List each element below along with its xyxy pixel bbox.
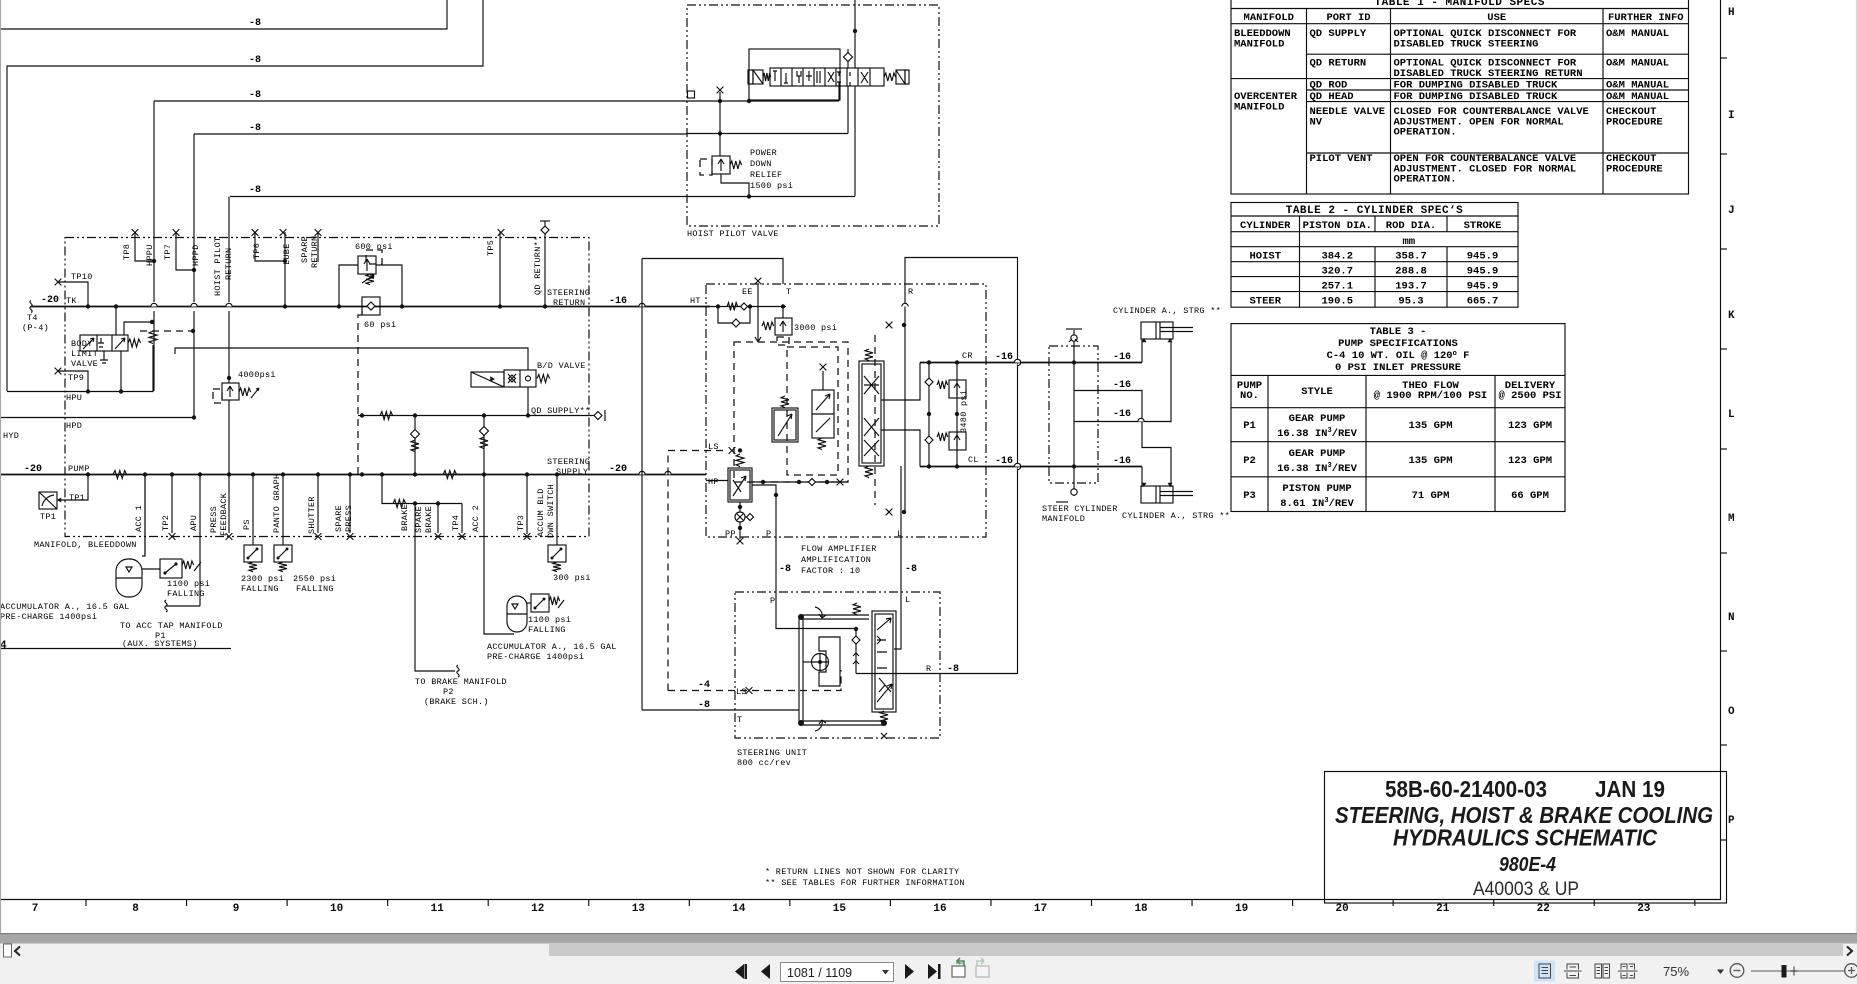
title block xyxy=(1325,772,1727,904)
wire line3 inside box xyxy=(687,100,839,102)
svg-text:PUMP: PUMP xyxy=(68,464,90,474)
svg-text:HT: HT xyxy=(690,296,701,306)
svg-text:-16: -16 xyxy=(995,456,1013,467)
svg-text:QD SUPPLY: QD SUPPLY xyxy=(1310,28,1367,40)
svg-text:22: 22 xyxy=(1537,903,1550,915)
prev page icon xyxy=(761,964,770,979)
svg-text:HOIST: HOIST xyxy=(1249,251,1281,263)
svg-text:(AUX. SYSTEMS): (AUX. SYSTEMS) xyxy=(122,639,198,649)
pressure switch PS 2300 xyxy=(244,545,262,572)
wire TP8 branch xyxy=(135,232,154,261)
svg-text:13: 13 xyxy=(632,903,646,915)
svg-text:2300 psi: 2300 psi xyxy=(241,574,284,584)
svg-text:MANIFOLD, BLEEDDOWN: MANIFOLD, BLEEDDOWN xyxy=(34,540,137,550)
svg-text:(BRAKE SCH.): (BRAKE SCH.) xyxy=(424,697,489,707)
svg-text:TP8: TP8 xyxy=(122,244,132,260)
svg-text:STEER: STEER xyxy=(1249,296,1281,308)
svg-text:TP1: TP1 xyxy=(40,512,56,522)
svg-text:RETURN: RETURN xyxy=(553,298,585,308)
right window edge xyxy=(1855,0,1857,933)
svg-text:PROCEDURE: PROCEDURE xyxy=(1606,163,1663,175)
solenoid valve bank xyxy=(748,68,909,86)
svg-text:CYLINDER A., STRG **: CYLINDER A., STRG ** xyxy=(1122,511,1230,521)
HT return line into amplifier xyxy=(706,306,786,308)
svg-text:3000 psi: 3000 psi xyxy=(794,323,837,333)
svg-text:190.5: 190.5 xyxy=(1321,296,1353,308)
svg-text:TP4: TP4 xyxy=(451,515,461,531)
svg-text:TK: TK xyxy=(66,296,77,306)
wire TP9 xyxy=(58,371,88,391)
wire line4 inside box xyxy=(687,133,848,135)
table 2 cylinder specs xyxy=(1231,203,1518,308)
svg-text:1100 psi: 1100 psi xyxy=(528,615,571,625)
pilot valve a xyxy=(772,396,798,442)
wire HPD xyxy=(0,417,193,419)
svg-text:TO ACC TAP MANIFOLD: TO ACC TAP MANIFOLD xyxy=(120,621,223,631)
svg-text:STEERING: STEERING xyxy=(547,288,590,298)
LUBE vertical xyxy=(284,232,286,306)
svg-text:2550 psi: 2550 psi xyxy=(293,574,336,584)
TP9 tap xyxy=(55,368,62,375)
svg-text:4000psi: 4000psi xyxy=(238,370,276,380)
spool bottom spring xyxy=(880,711,888,723)
svg-text:@ 1900 RPM/100 PSI: @ 1900 RPM/100 PSI xyxy=(1374,390,1487,402)
svg-text:TP10: TP10 xyxy=(71,272,93,282)
svg-text:J: J xyxy=(1728,205,1735,217)
wire -8 hoist line 1 xyxy=(0,0,447,29)
svg-text:PISTON DIA.: PISTON DIA. xyxy=(1303,220,1372,232)
svg-text:@ 2500 PSI: @ 2500 PSI xyxy=(1498,390,1561,402)
bleed fitting bottom xyxy=(1073,483,1075,496)
valve bank drop wires xyxy=(838,86,840,101)
TP5 vertical xyxy=(499,232,501,306)
svg-text:DISABLED TRUCK STEERING RETURN: DISABLED TRUCK STEERING RETURN xyxy=(1394,68,1583,80)
APU to acc tap manifold xyxy=(166,605,200,607)
toolbar background xyxy=(0,944,1857,984)
svg-text:-8: -8 xyxy=(779,564,791,575)
svg-text:EE: EE xyxy=(742,287,753,297)
svg-text:T4: T4 xyxy=(27,313,38,323)
svg-text:BODY: BODY xyxy=(71,339,93,349)
svg-text:PRE-CHARGE 1400psi: PRE-CHARGE 1400psi xyxy=(487,652,584,662)
svg-text:-20: -20 xyxy=(41,295,59,306)
svg-text:QD RETURN: QD RETURN xyxy=(1310,58,1367,70)
drawing sheet right border line xyxy=(1720,0,1722,899)
wire T trunk from tank down-left xyxy=(642,259,783,285)
spare return stub xyxy=(317,232,319,262)
svg-text:DISABLED TRUCK STEERING: DISABLED TRUCK STEERING xyxy=(1394,38,1539,50)
svg-text:QD HEAD: QD HEAD xyxy=(1310,91,1354,103)
svg-text:-8: -8 xyxy=(249,90,261,101)
wire tank vertical xyxy=(641,259,643,711)
svg-text:L: L xyxy=(897,529,902,539)
wire TP7 branch xyxy=(176,232,194,270)
svg-text:PP: PP xyxy=(725,529,736,539)
wire 600psi loop left xyxy=(339,265,358,306)
svg-text:12: 12 xyxy=(531,903,544,915)
accumulator ACC2 xyxy=(484,475,514,635)
svg-text:GEAR PUMP: GEAR PUMP xyxy=(1289,448,1346,460)
wire line5 inside box xyxy=(687,196,855,198)
svg-text:9: 9 xyxy=(233,903,240,915)
svg-text:-16: -16 xyxy=(995,352,1013,363)
svg-text:PRESS: PRESS xyxy=(344,505,354,532)
svg-text:I: I xyxy=(1728,110,1735,122)
svg-text:R: R xyxy=(908,287,913,297)
svg-text:257.1: 257.1 xyxy=(1321,281,1353,293)
zoom out button xyxy=(1730,964,1744,978)
svg-text:ROD DIA.: ROD DIA. xyxy=(1386,220,1436,232)
svg-text:M: M xyxy=(1728,513,1735,525)
svg-text:STEERING UNIT: STEERING UNIT xyxy=(737,748,807,758)
svg-text:ACCUMULATOR A., 16.5 GAL: ACCUMULATOR A., 16.5 GAL xyxy=(0,602,130,612)
wire R trunk xyxy=(905,258,1018,674)
svg-text:A40003 & UP: A40003 & UP xyxy=(1473,878,1579,900)
svg-text:FOR DUMPING DISABLED TRUCK: FOR DUMPING DISABLED TRUCK xyxy=(1394,80,1559,92)
left window edge xyxy=(0,0,2,933)
TP10 tap xyxy=(55,279,62,286)
svg-text:P: P xyxy=(770,596,775,606)
x mark on pilot branch xyxy=(719,92,721,101)
svg-text:AMPLIFICATION: AMPLIFICATION xyxy=(801,555,871,565)
svg-text:358.7: 358.7 xyxy=(1395,251,1427,263)
svg-text:O: O xyxy=(1728,706,1735,718)
svg-text:STYLE: STYLE xyxy=(1301,386,1333,398)
wire B/D pilot xyxy=(175,348,528,370)
svg-text:135 GPM: 135 GPM xyxy=(1408,455,1452,467)
inner dashed boxes xyxy=(734,342,848,482)
right ruler letters H-P xyxy=(1720,7,1735,840)
hoist pilot return vertical + 4000psi relief xyxy=(228,197,230,384)
steering cylinder A bottom xyxy=(1141,483,1193,503)
svg-text:TP1: TP1 xyxy=(69,493,85,503)
svg-text:APU: APU xyxy=(189,515,199,531)
bottom ruler numbers 7-23 xyxy=(32,899,1695,915)
svg-text:VALVE: VALVE xyxy=(71,359,98,369)
svg-text:-8: -8 xyxy=(698,700,710,711)
wire relief drain xyxy=(721,174,749,197)
T vertical + 3000psi relief xyxy=(782,307,784,319)
svg-text:-4: -4 xyxy=(698,680,710,691)
svg-text:71 GPM: 71 GPM xyxy=(1412,490,1450,502)
wire -8 line 4 HPPD to hoist pilot valve xyxy=(194,133,687,135)
hoist pilot valve dashed enclosure xyxy=(687,5,939,226)
svg-text:945.9: 945.9 xyxy=(1467,251,1499,263)
right spring + solenoid xyxy=(884,73,896,81)
svg-text:HOIST PILOT: HOIST PILOT xyxy=(213,237,223,296)
wire -8 line 3 HPPU to hoist pilot valve xyxy=(154,100,687,102)
lower-left sheet zone border line xyxy=(0,648,231,650)
svg-text:N: N xyxy=(1728,612,1735,624)
svg-text:945.9: 945.9 xyxy=(1467,266,1499,278)
svg-text:CYLINDER A., STRG **: CYLINDER A., STRG ** xyxy=(1113,306,1221,316)
svg-text:18: 18 xyxy=(1134,903,1148,915)
svg-text:P: P xyxy=(766,529,771,539)
zoom in button xyxy=(1845,964,1857,978)
wire CR -16 xyxy=(920,362,1142,364)
svg-text:DWN SWITCH: DWN SWITCH xyxy=(546,484,556,538)
svg-text:60 psi: 60 psi xyxy=(364,320,396,330)
page number combo xyxy=(781,963,894,982)
pilot valve b xyxy=(812,390,834,450)
QD supply fitting xyxy=(594,412,602,420)
svg-text:HPD: HPD xyxy=(66,421,82,431)
svg-text:PILOT VENT: PILOT VENT xyxy=(1310,153,1373,165)
svg-text:P2: P2 xyxy=(443,687,454,697)
svg-text:ACCUMULATOR A., 16.5 GAL: ACCUMULATOR A., 16.5 GAL xyxy=(487,642,617,652)
svg-text:-16: -16 xyxy=(1113,380,1131,391)
svg-text:-20: -20 xyxy=(24,464,42,475)
svg-text:0 PSI INLET PRESSURE: 0 PSI INLET PRESSURE xyxy=(1335,362,1461,374)
svg-text:1100 psi: 1100 psi xyxy=(167,579,210,589)
svg-text:-16: -16 xyxy=(1113,409,1131,420)
svg-text:PORT ID: PORT ID xyxy=(1326,12,1370,24)
svg-text:7: 7 xyxy=(32,903,39,915)
HPPU vertical xyxy=(153,101,155,391)
svg-text:SUPPLY: SUPPLY xyxy=(556,467,588,477)
svg-text:-8: -8 xyxy=(905,564,917,575)
scrollbar left arrow xyxy=(15,947,20,956)
wire TK to valve xyxy=(115,306,117,335)
svg-text:P1: P1 xyxy=(1243,420,1256,432)
counterbalance reliefs 3480psi xyxy=(928,363,930,467)
main spool valve xyxy=(859,349,884,478)
svg-text:L: L xyxy=(905,595,910,605)
wire brake header xyxy=(382,475,462,504)
svg-text:mm: mm xyxy=(1402,236,1415,248)
dashed drain from 60psi to supply xyxy=(358,311,362,474)
svg-text:FALLING: FALLING xyxy=(167,589,205,599)
svg-text:HYD: HYD xyxy=(3,431,19,441)
svg-text:95.3: 95.3 xyxy=(1398,296,1423,308)
svg-text:QD RETURN**: QD RETURN** xyxy=(533,236,543,295)
svg-text:STEER CYLINDER: STEER CYLINDER xyxy=(1042,504,1118,514)
svg-text:L: L xyxy=(1728,409,1735,421)
svg-text:16.38 IN3/REV: 16.38 IN3/REV xyxy=(1277,462,1358,475)
two page layout icon xyxy=(1595,964,1610,978)
svg-text:** SEE TABLES FOR FURTHER INFO: ** SEE TABLES FOR FURTHER INFORMATION xyxy=(765,878,965,888)
svg-text:RELIEF: RELIEF xyxy=(750,170,782,180)
svg-text:H: H xyxy=(1728,7,1735,19)
svg-text:O&M MANUAL: O&M MANUAL xyxy=(1606,58,1669,70)
svg-text:66 GPM: 66 GPM xyxy=(1511,490,1549,502)
svg-text:CYLINDER: CYLINDER xyxy=(1240,220,1291,232)
svg-text:-16: -16 xyxy=(1113,456,1131,467)
two page continuous icon xyxy=(1618,964,1638,978)
svg-text:FACTOR : 10: FACTOR : 10 xyxy=(801,566,860,576)
scrollbar left corner box xyxy=(4,944,12,957)
wire TP10 xyxy=(58,282,88,306)
svg-text:FALLING: FALLING xyxy=(528,625,566,635)
branch check+spring 1 xyxy=(414,416,416,475)
hoist pilot valve internal solid box xyxy=(749,49,840,100)
metering line xyxy=(800,628,856,630)
next page icon xyxy=(905,964,914,979)
steering pipes xyxy=(799,615,885,725)
last page icon xyxy=(928,964,937,979)
svg-text:8: 8 xyxy=(132,903,139,915)
svg-text:TP2: TP2 xyxy=(161,515,171,531)
svg-text:TABLE 1 - MANIFOLD SPECS: TABLE 1 - MANIFOLD SPECS xyxy=(1375,0,1545,9)
svg-text:16.38 IN3/REV: 16.38 IN3/REV xyxy=(1277,427,1358,440)
svg-text:14: 14 xyxy=(732,903,746,915)
wire P into pipes xyxy=(776,592,800,629)
svg-text:MANIFOLD: MANIFOLD xyxy=(1234,38,1284,50)
wire to brake manifold xyxy=(415,504,455,672)
wire -16 rod cross xyxy=(1074,391,1171,488)
svg-text:16: 16 xyxy=(933,903,946,915)
svg-text:ACC 1: ACC 1 xyxy=(134,505,144,532)
spring top xyxy=(853,603,861,615)
gray separator bar xyxy=(0,933,1857,944)
svg-text:LS: LS xyxy=(708,442,719,452)
svg-text:R: R xyxy=(926,664,931,674)
svg-text:FURTHER INFO: FURTHER INFO xyxy=(1608,12,1684,24)
svg-text:C-4 10 WT. OIL @ 120o F: C-4 10 WT. OIL @ 120o F xyxy=(1327,350,1470,362)
svg-text:600 psi: 600 psi xyxy=(355,242,393,252)
svg-text:TABLE 2 - CYLINDER SPEC‘S: TABLE 2 - CYLINDER SPEC‘S xyxy=(1286,205,1464,217)
HPPD vertical xyxy=(193,134,195,417)
svg-text:-8: -8 xyxy=(249,123,261,134)
svg-text:HP: HP xyxy=(708,477,719,487)
wire TP6 branch xyxy=(255,232,285,261)
svg-text:288.8: 288.8 xyxy=(1395,266,1427,278)
svg-text:P3: P3 xyxy=(1243,490,1256,502)
svg-text:FALLING: FALLING xyxy=(241,584,279,594)
svg-text:O&M MANUAL: O&M MANUAL xyxy=(1606,91,1669,103)
svg-text:MANIFOLD: MANIFOLD xyxy=(1244,12,1294,24)
svg-text:TP7: TP7 xyxy=(163,244,173,260)
svg-text:HOIST PILOT VALVE: HOIST PILOT VALVE xyxy=(687,229,779,239)
spool pilot dashed xyxy=(874,335,876,505)
flow amplifier dashed enclosure xyxy=(706,284,986,537)
wire TK steering return -16 bus xyxy=(31,306,710,308)
svg-text:TP3: TP3 xyxy=(516,515,526,531)
svg-text:21: 21 xyxy=(1436,903,1450,915)
wire QD supply xyxy=(358,415,592,417)
svg-text:665.7: 665.7 xyxy=(1467,296,1499,308)
svg-text:23: 23 xyxy=(1637,903,1651,915)
svg-text:JAN 19: JAN 19 xyxy=(1595,776,1665,802)
scrollbar right arrow xyxy=(1847,947,1852,956)
R vertical inside xyxy=(904,284,906,512)
steering spool xyxy=(872,611,896,712)
svg-text:NO.: NO. xyxy=(1240,390,1259,402)
x-marks on lower dashed edge xyxy=(169,533,176,540)
svg-text:135 GPM: 135 GPM xyxy=(1408,420,1452,432)
svg-text:-8: -8 xyxy=(249,55,261,66)
svg-text:15: 15 xyxy=(833,903,847,915)
wire HPU xyxy=(7,345,153,392)
svg-text:HPU: HPU xyxy=(66,393,82,403)
svg-text:QD ROD: QD ROD xyxy=(1310,80,1348,92)
svg-text:-20: -20 xyxy=(609,464,627,475)
svg-text:123 GPM: 123 GPM xyxy=(1508,420,1552,432)
svg-text:-8: -8 xyxy=(249,18,261,29)
spool to CR/CL xyxy=(881,363,920,467)
svg-text:17: 17 xyxy=(1034,903,1047,915)
svg-text:HPPD: HPPD xyxy=(191,244,201,266)
svg-text:384.2: 384.2 xyxy=(1321,251,1353,263)
svg-text:FALLING: FALLING xyxy=(296,584,334,594)
svg-text:TO BRAKE MANIFOLD: TO BRAKE MANIFOLD xyxy=(415,677,507,687)
svg-text:SHUTTER: SHUTTER xyxy=(307,496,317,534)
lower port verticals xyxy=(144,475,146,557)
svg-text:CL: CL xyxy=(968,455,979,465)
svg-text:300 psi: 300 psi xyxy=(553,573,591,583)
svg-text:P: P xyxy=(1728,815,1735,827)
svg-text:FLOW AMPLIFIER: FLOW AMPLIFIER xyxy=(801,544,877,554)
svg-text:8.61 IN3/REV: 8.61 IN3/REV xyxy=(1280,497,1354,510)
wire 600psi loop right xyxy=(376,265,402,306)
svg-text:GEAR PUMP: GEAR PUMP xyxy=(1289,413,1346,425)
branch check+spring 2 xyxy=(483,416,485,475)
svg-text:HYDRAULICS SCHEMATIC: HYDRAULICS SCHEMATIC xyxy=(1393,825,1657,851)
housing block xyxy=(819,637,840,686)
svg-text:OPERATION.: OPERATION. xyxy=(1394,127,1457,139)
svg-text:PROCEDURE: PROCEDURE xyxy=(1606,116,1663,128)
svg-text:OPERATION.: OPERATION. xyxy=(1394,174,1457,186)
QD return vertical + fitting xyxy=(544,232,546,306)
svg-text:SPARE: SPARE xyxy=(300,236,310,263)
steer cylinder manifold dashed enclosure xyxy=(1049,346,1098,483)
first page icon xyxy=(735,964,744,979)
wire R out of steering unit xyxy=(856,673,1018,675)
svg-text:19: 19 xyxy=(1235,903,1248,915)
svg-text:USE: USE xyxy=(1487,12,1506,24)
svg-text:75%: 75% xyxy=(1663,964,1689,979)
left solenoid + spring xyxy=(753,70,763,84)
svg-text:BRAKE: BRAKE xyxy=(424,506,434,533)
pressure switch PANTO 2550 xyxy=(274,545,292,572)
wire L to steering unit xyxy=(900,466,902,592)
svg-text:P2: P2 xyxy=(1243,455,1256,467)
wire pump steering supply -20 bus xyxy=(0,474,706,476)
svg-text:-16: -16 xyxy=(609,296,627,307)
pilot dashed link body limit valve xyxy=(140,330,193,332)
horizontal scrollbar thumb xyxy=(549,944,1843,956)
previous view icon xyxy=(952,958,965,977)
svg-text:K: K xyxy=(1728,310,1735,322)
svg-text:-8: -8 xyxy=(249,185,261,196)
svg-text:1500 psi: 1500 psi xyxy=(750,181,793,191)
wire B/D to QD supply xyxy=(527,387,529,415)
pilot supply vertical from top xyxy=(854,0,856,68)
port square on box edge xyxy=(688,91,695,98)
pressure switch ACC1 xyxy=(142,568,160,570)
svg-text:945.9: 945.9 xyxy=(1467,281,1499,293)
svg-text:B/D VALVE: B/D VALVE xyxy=(537,361,586,371)
wire -16 rod line xyxy=(1074,339,1171,422)
EE pilot xyxy=(755,278,762,285)
svg-text:PRESS: PRESS xyxy=(209,506,219,533)
zoom slider xyxy=(1751,970,1845,972)
svg-text:(P-4): (P-4) xyxy=(22,323,49,333)
svg-text:NV: NV xyxy=(1310,116,1323,128)
svg-text:20: 20 xyxy=(1336,903,1349,915)
wire TP1 xyxy=(57,474,88,500)
bleed fitting top xyxy=(1073,330,1075,346)
svg-text:QD SUPPLY**: QD SUPPLY** xyxy=(531,406,590,416)
svg-text:T: T xyxy=(737,715,742,725)
wire L into spool xyxy=(894,592,901,649)
svg-text:O&M MANUAL: O&M MANUAL xyxy=(1606,28,1669,40)
svg-text:800 cc/rev: 800 cc/rev xyxy=(737,758,791,768)
wire relief drain to pump bus xyxy=(228,400,230,474)
table 1 manifold specs xyxy=(1231,0,1689,194)
svg-text:TABLE 3 -: TABLE 3 - xyxy=(1370,326,1427,338)
svg-text:10: 10 xyxy=(330,903,343,915)
